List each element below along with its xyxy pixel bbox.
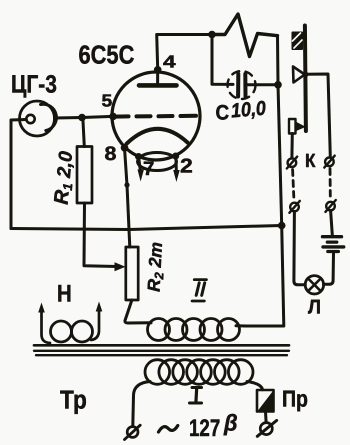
pickup inner arc bbox=[41, 104, 57, 130]
svg-text:8: 8 bbox=[105, 143, 117, 165]
node pin 8 bbox=[121, 144, 129, 152]
wire fuse to terminal bbox=[264, 412, 268, 423]
wire C loop left vertical bbox=[212, 35, 233, 85]
label pin 4 bbox=[163, 52, 176, 72]
jack tip contact triangle bbox=[293, 67, 305, 83]
label winding I bbox=[192, 386, 202, 389]
label pin 8 bbox=[105, 143, 117, 165]
node rail right junction bbox=[278, 222, 286, 230]
svg-text:2: 2 bbox=[180, 156, 193, 178]
node pin 4 bbox=[154, 66, 162, 74]
R2 wiper arrowhead bbox=[115, 262, 126, 271]
svg-text:R2 2m: R2 2m bbox=[144, 241, 169, 292]
label pin 2 bbox=[180, 156, 193, 178]
svg-text:β: β bbox=[223, 410, 238, 436]
jack J1 plug bar bbox=[305, 26, 306, 132]
svg-text:С: С bbox=[216, 102, 230, 125]
wire lower-left contact to lamp bbox=[294, 212, 305, 285]
wire rail junction down to winding II bbox=[246, 226, 284, 327]
wire pickup left down to bottom rail bbox=[11, 120, 26, 229]
tube V1 6S5S label bbox=[79, 40, 135, 70]
node pin 5 bbox=[109, 113, 117, 121]
lamp X cross bbox=[308, 279, 321, 292]
wire R1 top lead bbox=[83, 121, 84, 147]
label ~ 127 v bbox=[159, 426, 178, 433]
wire battery to lamp bbox=[324, 253, 334, 284]
pickup inner small circle bbox=[26, 115, 34, 123]
label R1 2,0 bbox=[51, 150, 79, 206]
label L bbox=[308, 297, 321, 319]
potentiometer R2 body bbox=[126, 247, 138, 300]
wire right column down to rail bbox=[278, 85, 282, 226]
svg-text:Н: Н bbox=[57, 281, 72, 308]
tube anode lead bbox=[156, 70, 159, 84]
node junction R1 top bbox=[78, 114, 86, 122]
tube anode bar bbox=[139, 83, 177, 88]
jack hatched box bbox=[293, 33, 303, 50]
fuse Pr filled half bbox=[258, 392, 273, 411]
label winding II bbox=[194, 278, 206, 281]
node pin 2 bbox=[172, 153, 179, 160]
switch K dashed link left bbox=[293, 170, 294, 198]
node pin 7 bbox=[135, 153, 142, 160]
svg-text:R1 2,0: R1 2,0 bbox=[51, 150, 79, 206]
winding N loops bbox=[51, 321, 72, 342]
tube cathode arc bbox=[127, 129, 188, 144]
tube envelope circle bbox=[112, 72, 200, 160]
svg-text:127: 127 bbox=[189, 415, 220, 442]
pickup XS1 CG-3 outer circle bbox=[20, 101, 55, 136]
battery B1 bars bbox=[323, 235, 342, 238]
switch K upper-right contact bbox=[325, 158, 334, 167]
label K bbox=[305, 151, 316, 172]
svg-text:7: 7 bbox=[143, 158, 154, 180]
wire R2 bottom to winding II bbox=[125, 300, 151, 323]
terminal right 127V bbox=[260, 423, 272, 435]
svg-text:10,0: 10,0 bbox=[230, 98, 267, 123]
label Tr bbox=[60, 385, 87, 415]
label N winding bbox=[57, 281, 72, 308]
wire bottom rail bbox=[11, 226, 282, 230]
lamp L circle bbox=[305, 276, 323, 294]
capacitor C dashed circle bbox=[228, 71, 256, 99]
wire pickup to grid bbox=[55, 116, 114, 118]
winding N left arrow bbox=[42, 311, 51, 343]
node blob on cathode wire bbox=[124, 182, 129, 187]
capacitor right lead bbox=[247, 83, 279, 86]
jack sleeve box bbox=[289, 119, 296, 134]
svg-text:ЦГ-3: ЦГ-3 bbox=[11, 71, 57, 99]
wire zigzag right vertical bbox=[276, 36, 280, 85]
node C right junction bbox=[274, 81, 282, 89]
wire pin 2 arrow bbox=[175, 158, 178, 170]
svg-text:Л: Л bbox=[308, 297, 321, 319]
wire pin 8 down to R2 top bbox=[125, 148, 130, 247]
label C 10,0 bbox=[216, 102, 230, 125]
label pin 5 bbox=[102, 91, 113, 111]
label R2 2m bbox=[144, 241, 169, 292]
transformer winding II loops bbox=[148, 319, 170, 341]
wire pin 7 arrow bbox=[139, 158, 141, 170]
svg-text:4: 4 bbox=[163, 52, 176, 72]
tube grid dashes bbox=[114, 114, 129, 118]
svg-text:К: К bbox=[305, 151, 316, 172]
switch K upper-left contact bbox=[288, 158, 297, 167]
wire winding I right lead bbox=[247, 382, 263, 390]
svg-text:5: 5 bbox=[102, 91, 113, 111]
winding N right arrow bbox=[91, 309, 99, 340]
svg-text:6С5С: 6С5С bbox=[79, 40, 135, 70]
switch K lower-left contact bbox=[290, 203, 299, 212]
node jack tip junction bbox=[302, 72, 308, 78]
wire jack tip to right switch bbox=[306, 74, 331, 157]
switch K lower-right contact bbox=[326, 202, 335, 211]
tube heater ellipse bbox=[138, 153, 177, 171]
wire R1 bottom to R2 wiper bbox=[84, 203, 117, 267]
label CG-3 bbox=[11, 71, 57, 99]
resistor R1 body bbox=[77, 147, 92, 204]
wire pin4 up and right to zigzag bbox=[157, 35, 212, 70]
jack sleeve wedge bbox=[296, 122, 306, 132]
label Pr bbox=[282, 386, 308, 412]
switch K dashed link right bbox=[329, 169, 332, 197]
label pin 7 bbox=[143, 158, 154, 180]
wire winding I left lead bbox=[133, 382, 150, 427]
svg-text:Пр: Пр bbox=[282, 386, 308, 412]
wire lower-right contact to battery bbox=[331, 211, 333, 236]
wire jack sleeve to left switch bbox=[290, 134, 293, 159]
capacitor C plates bbox=[236, 74, 240, 97]
node zigzag left junction bbox=[208, 31, 216, 39]
transformer core lines bbox=[34, 344, 289, 347]
transformer winding I loops bbox=[145, 360, 170, 385]
wire winding II right lead bbox=[236, 324, 246, 327]
resistor zigzag top right bbox=[212, 14, 278, 57]
terminal left 127V bbox=[127, 427, 138, 438]
fuse Pr body bbox=[257, 390, 274, 412]
svg-text:Тр: Тр bbox=[60, 385, 87, 415]
